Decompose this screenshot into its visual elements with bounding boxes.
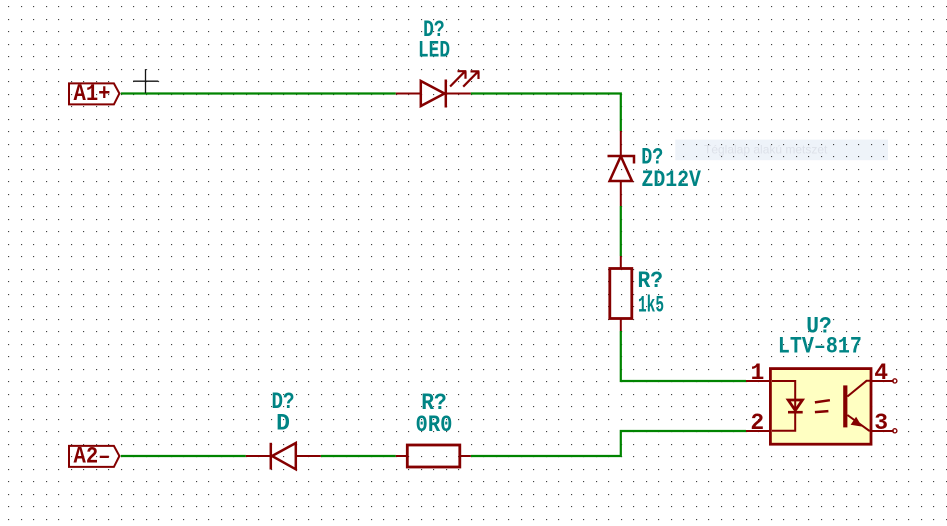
zener diode pins [620, 131, 622, 206]
zener value ZD12V [641, 167, 701, 193]
optocoupler pin 3 [871, 410, 897, 436]
svg-text:D: D [276, 411, 290, 437]
diode D body [271, 443, 296, 470]
resistor R1k5 pins [620, 256, 622, 331]
hierarchical label A2- [69, 443, 119, 469]
svg-text:3: 3 [874, 410, 888, 436]
resistor 0R0 body [407, 445, 460, 467]
svg-text:4: 4 [874, 360, 888, 386]
optocoupler reference U? [806, 313, 832, 339]
zener reference D? [641, 145, 663, 171]
optocoupler internal LED [772, 381, 803, 431]
svg-text:ZD12V: ZD12V [641, 167, 701, 193]
wire R1k5 to opto pin 1 [621, 331, 746, 381]
wire 0R0 to opto pin 2 [471, 431, 746, 456]
wire zener to resistor R1k5 [620, 206, 622, 256]
resistor R1k5 body [610, 269, 632, 319]
optocoupler U? body [770, 369, 871, 445]
svg-text:1k5: 1k5 [638, 292, 664, 318]
resistor 0R0 value 0R0 [416, 412, 453, 438]
diode value D [276, 411, 290, 437]
resistor value 1k5 [638, 292, 664, 318]
LED D1 pins [396, 93, 471, 95]
resistor 0R0 pins [396, 455, 471, 457]
resistor 0R0 reference R? [421, 390, 447, 416]
hierarchical label A1+ [69, 81, 119, 107]
svg-text:LED: LED [418, 37, 450, 63]
svg-text:Téglalap alakú metszet: Téglalap alakú metszet [704, 142, 828, 156]
wire diode D to resistor 0R0 [321, 455, 396, 457]
LED D1 body [421, 80, 446, 108]
svg-text:A1+: A1+ [74, 81, 111, 107]
optocoupler coupling symbol [815, 400, 830, 412]
tooltip overlay [675, 140, 888, 161]
svg-text:R?: R? [638, 268, 664, 294]
optocoupler phototransistor [843, 381, 871, 431]
wire A2- to diode D [121, 455, 246, 457]
zener diode body ZD12V [608, 156, 635, 181]
LED D1 arrow 2 [463, 71, 479, 86]
LED D1 reference D? [423, 17, 445, 43]
LED D1 value LED [418, 37, 450, 63]
svg-text:0R0: 0R0 [416, 412, 453, 438]
svg-text:1: 1 [750, 360, 764, 386]
resistor reference R? [638, 268, 664, 294]
svg-text:2: 2 [750, 410, 764, 436]
svg-text:A2–: A2– [74, 443, 111, 469]
wire LED to corner and down to zener [471, 94, 621, 132]
optocoupler pin 1 [746, 360, 771, 386]
optocoupler value LTV-817 [778, 333, 862, 359]
LED D1 arrow 1 [450, 71, 466, 86]
optocoupler pin 2 [746, 410, 771, 436]
optocoupler pin 4 [871, 360, 897, 386]
svg-text:LTV–817: LTV–817 [778, 333, 862, 359]
diode reference D? [272, 389, 295, 415]
wire A1+ to LED [121, 92, 396, 94]
cursor crosshair [133, 69, 158, 93]
diode D pins [246, 455, 321, 457]
